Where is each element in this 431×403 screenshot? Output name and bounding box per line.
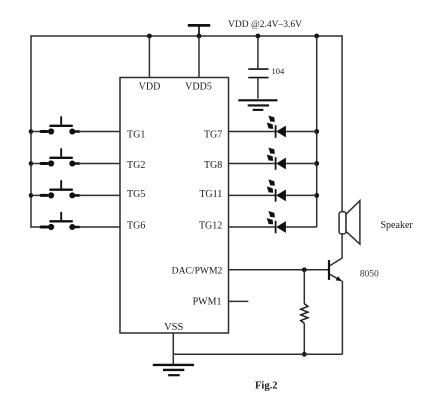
svg-text:TG11: TG11: [199, 189, 222, 200]
junction: [314, 193, 319, 198]
wire speaker to collector: [341, 234, 343, 258]
LED D2: [229, 148, 317, 170]
junction: [197, 34, 202, 39]
wire LED anode rail: [316, 36, 318, 227]
junction: [29, 161, 34, 166]
wire left key rail: [30, 35, 32, 227]
wire emitter down: [341, 281, 343, 354]
speaker LS1: [339, 201, 360, 245]
junction: [29, 193, 34, 198]
wire cap top lead: [257, 36, 259, 68]
svg-text:PWM1: PWM1: [193, 297, 222, 308]
svg-text:VDD: VDD: [139, 82, 161, 93]
power symbol VDD: [188, 25, 210, 36]
LED D3: [229, 179, 317, 201]
pushbutton S2: [31, 149, 120, 166]
ground near C1: [238, 100, 277, 110]
svg-text:DAC/PWM2: DAC/PWM2: [172, 265, 223, 276]
svg-text:TG2: TG2: [127, 160, 145, 171]
LED D4: [229, 211, 317, 233]
svg-text:TG7: TG7: [204, 130, 222, 141]
svg-text:TG1: TG1: [127, 130, 145, 141]
wire VDD top rail: [31, 35, 342, 37]
svg-text:TG5: TG5: [127, 189, 145, 200]
pushbutton S4: [31, 213, 120, 230]
junction: [314, 161, 319, 166]
wire cap bottom lead: [257, 78, 259, 98]
svg-text:Fig.2: Fig.2: [255, 380, 277, 391]
ground VSS: [153, 365, 194, 375]
wire base (DAC/PWM2): [229, 269, 329, 271]
junction: [314, 129, 319, 134]
svg-text:VDD5: VDD5: [185, 82, 212, 93]
svg-text:VDD @2.4V–3.6V: VDD @2.4V–3.6V: [228, 20, 302, 30]
svg-text:TG8: TG8: [204, 160, 222, 171]
wire speaker drop: [341, 35, 343, 212]
pushbutton S3: [31, 181, 120, 198]
transistor Q1: [329, 258, 343, 281]
LED D1: [229, 116, 317, 138]
junction: [29, 129, 34, 134]
svg-text:104: 104: [272, 66, 286, 76]
resistor R1: [301, 304, 308, 324]
wire resistor bottom lead: [303, 323, 305, 354]
svg-text:VSS: VSS: [164, 322, 183, 333]
junction: [302, 352, 307, 357]
junction: [302, 267, 307, 272]
capacitor C1 104: [248, 69, 268, 78]
pushbutton S1: [31, 117, 120, 134]
IC U1 body: [120, 78, 229, 334]
svg-text:Speaker: Speaker: [381, 220, 414, 231]
wire VSS down: [172, 333, 174, 364]
junction: [314, 34, 319, 39]
wire ground rail: [173, 353, 342, 355]
junction: [147, 34, 152, 39]
svg-text:TG6: TG6: [127, 221, 145, 232]
wire VDD drop: [148, 36, 150, 78]
wire PWM1 stub: [229, 300, 249, 302]
wire resistor top lead: [303, 270, 305, 304]
wire VDD5 drop: [198, 36, 200, 78]
junction: [256, 34, 261, 39]
svg-text:8050: 8050: [360, 270, 379, 280]
svg-text:TG12: TG12: [199, 221, 222, 232]
